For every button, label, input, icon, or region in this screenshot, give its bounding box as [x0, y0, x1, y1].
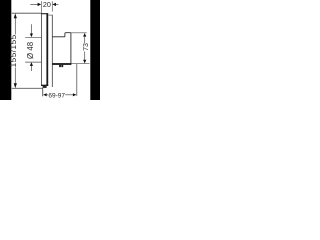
dim 73 top extension line: [71, 32, 87, 34]
svg-text:69-97: 69-97: [48, 93, 65, 100]
svg-text:73: 73: [83, 43, 90, 51]
dim diameter 48 bottom stem + up arrow: [30, 66, 32, 72]
dim 73 up arrow + stem: [83, 33, 86, 37]
side view plate: left edge: [40, 13, 42, 85]
svg-text:155/155: 155/155: [9, 34, 18, 67]
dim 73 down arrow + stem: [83, 60, 86, 64]
concealed body: top edge: [52, 36, 65, 38]
concealed body: right edge: [70, 33, 72, 64]
dim 155/155 top extension line: [12, 12, 42, 14]
svg-text:20: 20: [43, 0, 51, 9]
bottom dim right reference line: [76, 64, 78, 96]
dim 20 right arrow + tail: [52, 3, 56, 6]
concealed body: bottom connector bumps: [59, 65, 61, 67]
dim 155/155 arrow down: [14, 83, 17, 88]
left black pillar bar: [0, 0, 11, 100]
dim 73 bottom extension line: [71, 63, 89, 65]
wall line: [51, 15, 53, 87]
bottom dim left arrow + tail: [43, 93, 47, 96]
dim diameter 48 top stem + down arrow: [30, 24, 32, 34]
concealed body: top tab with rounded corner: [65, 33, 71, 37]
dim 155/155 line upper segment: [14, 18, 16, 35]
wall top tick: [48, 14, 52, 16]
dim 20 left extension line: [40, 1, 42, 13]
bottom dim right tail + arrow: [65, 94, 74, 96]
dim 155/155 line lower segment: [14, 68, 16, 85]
dim diameter 48 top extension line: [25, 36, 41, 38]
concealed body: thick bottom edge: [52, 63, 71, 65]
dim 155/155 arrow up: [14, 13, 17, 18]
dim 20 left line + arrow: [30, 3, 38, 5]
side view plate: top edge: [41, 13, 48, 15]
technical dimension drawing, pillarboxed thumbnail 100x100: [0, 0, 100, 100]
bottom dim left reference line: [42, 88, 44, 96]
svg-text:Ø 48: Ø 48: [26, 42, 35, 59]
dim diameter 48 bottom extension line: [25, 61, 41, 63]
right black pillar bar: [90, 0, 100, 100]
dim 20 right extension line: [51, 1, 53, 11]
side view plate: bottom edge: [41, 84, 48, 86]
side view plate: thick front face: [46, 13, 48, 85]
dim 155/155 bottom extension line: [12, 87, 43, 89]
side view plate: bottom foot: [43, 86, 47, 88]
